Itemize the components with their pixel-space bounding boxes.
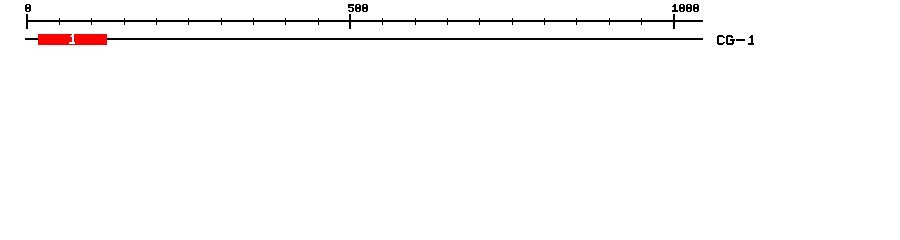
minor tick 450	[318, 18, 319, 25]
minor tick 950	[641, 18, 642, 25]
minor tick 900	[609, 18, 610, 25]
minor tick 250	[188, 18, 189, 25]
minor tick 750	[512, 18, 513, 25]
track name dash	[736, 39, 745, 41]
minor tick 350	[253, 18, 254, 25]
minor tick 200	[156, 18, 157, 25]
major tick 0	[26, 14, 28, 29]
minor tick 300	[221, 18, 222, 25]
track line	[25, 38, 703, 40]
minor tick 850	[576, 18, 577, 25]
minor tick 400	[285, 18, 286, 25]
ruler baseline	[26, 20, 703, 22]
track name letter G	[726, 35, 735, 45]
minor tick 700	[479, 18, 480, 25]
minor tick 800	[544, 18, 545, 25]
major tick 1000	[673, 14, 675, 29]
feature label 1	[69, 34, 75, 44]
minor tick 150	[124, 18, 125, 25]
ruler label 1000	[672, 4, 699, 12]
feature box 1	[38, 34, 107, 45]
minor tick 600	[415, 18, 416, 25]
minor tick 50	[59, 18, 60, 25]
track name letter C	[717, 35, 725, 45]
ruler label 0	[25, 4, 31, 12]
major tick 500	[349, 14, 351, 29]
minor tick 550	[382, 18, 383, 25]
minor tick 650	[447, 18, 448, 25]
minor tick 100	[91, 18, 92, 25]
ruler label 500	[348, 4, 368, 12]
track name digit 1	[748, 35, 754, 45]
